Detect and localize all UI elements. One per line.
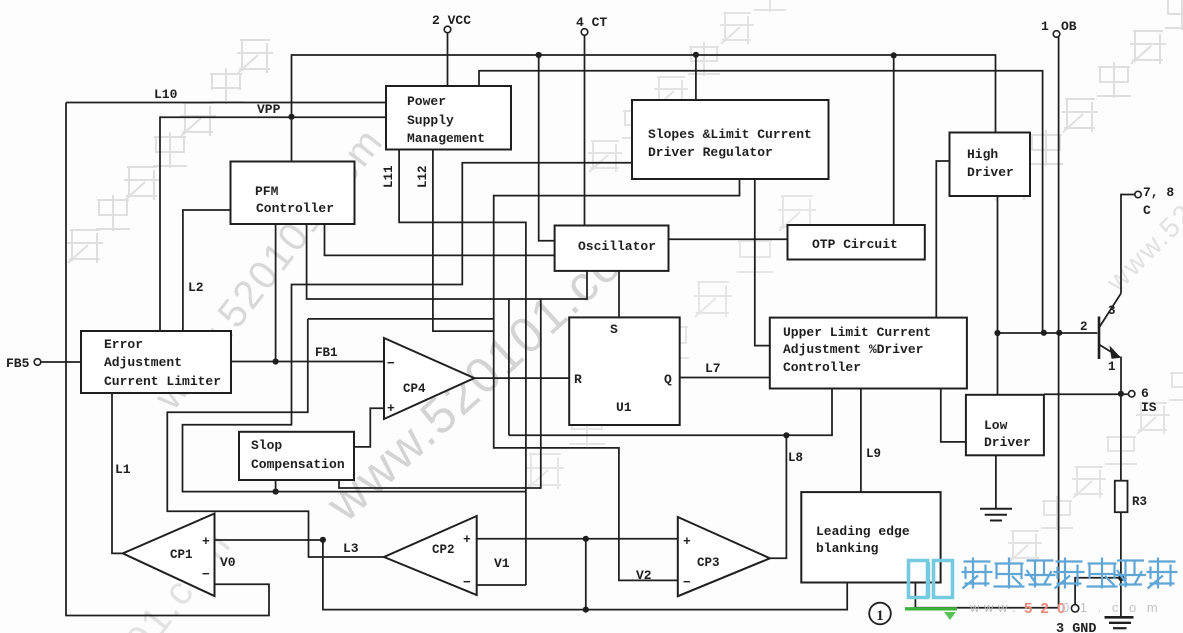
svg-text:+: +: [683, 534, 691, 549]
svg-text:L3: L3: [343, 541, 359, 556]
svg-text:Q: Q: [664, 372, 672, 387]
svg-text:Management: Management: [407, 131, 485, 146]
svg-text:Current Limiter: Current Limiter: [104, 374, 221, 389]
wire CP2 plus line to CP3 plus: [477, 538, 678, 540]
wire Slopes left pin long loop to slop-compensation line: [183, 163, 633, 492]
transistor Q1: [1098, 317, 1101, 360]
svg-text:V0: V0: [220, 555, 236, 570]
wire OB terminal down to base node: [1058, 37, 1060, 333]
svg-text:L2: L2: [188, 280, 204, 295]
block Oscillator: [555, 226, 669, 271]
svg-text:1: 1: [876, 608, 884, 624]
wire Upper Limit bottom to Low Driver left: [941, 389, 966, 442]
svg-text:L1: L1: [115, 462, 131, 477]
wire VPP horizontal to PSM left: [160, 116, 386, 118]
svg-text:+: +: [202, 534, 210, 549]
svg-text:CP1: CP1: [170, 548, 193, 562]
svg-text:blanking: blanking: [816, 541, 879, 556]
terminal 7,8 C: [1135, 185, 1175, 218]
ground bottom right: [1105, 616, 1134, 619]
svg-text:High: High: [967, 147, 998, 162]
wire slop box bottom pin: [275, 480, 277, 492]
colored watermark bottom right: [909, 558, 1178, 599]
wire Slopes bottom pin1 to V2 chain: [494, 179, 740, 580]
resistor R3: [1115, 481, 1128, 513]
svg-text:Controller: Controller: [256, 201, 334, 216]
svg-text:R3: R3: [1132, 495, 1147, 509]
wire V1 box bottom: [477, 584, 526, 586]
svg-text:L9: L9: [866, 447, 881, 461]
wire VPP vertical from bus to PFM top: [291, 54, 293, 162]
svg-text:V2: V2: [636, 568, 652, 583]
block Slopes & Limit Current Driver Regulator: [632, 100, 829, 179]
svg-text:L10: L10: [154, 87, 178, 102]
svg-text:Error: Error: [104, 337, 143, 352]
wire Slopes bottom pin2 to Upper Limit left: [755, 179, 770, 346]
svg-text:1: 1: [1041, 19, 1049, 34]
wire bottom rail from L3 node to blanking box: [323, 540, 847, 610]
block OTP Circuit: [788, 225, 925, 260]
wire CP4 plus from slop compensation: [354, 408, 384, 447]
svg-text:5 2 0: 5 2 0: [1024, 600, 1067, 617]
svg-text:−: −: [387, 356, 395, 371]
svg-text:IS: IS: [1141, 400, 1157, 415]
wire Oscillator S output to U1: [618, 271, 620, 318]
wire Low Driver bottom to ground: [995, 455, 997, 508]
green marker line: [905, 607, 957, 610]
wire L8 horizontal: [509, 389, 832, 436]
svg-text:4 CT: 4 CT: [576, 15, 607, 30]
junction base rail 1: [994, 330, 1000, 336]
svg-text:−: −: [202, 567, 210, 582]
svg-text:6: 6: [1141, 386, 1149, 401]
wire V rail vertical: [585, 539, 587, 610]
svg-text:L12: L12: [416, 165, 430, 188]
svg-text:Supply: Supply: [407, 113, 454, 128]
svg-text:Slopes &Limit Current: Slopes &Limit Current: [648, 127, 812, 142]
wire CP2 output loop to CP1 plus corner: [167, 319, 384, 557]
svg-text:S: S: [610, 322, 618, 337]
svg-text:2: 2: [1080, 320, 1088, 334]
wire CT terminal to Oscillator top: [584, 35, 586, 226]
junction V rail bottom: [583, 607, 589, 613]
wire CP3 output up to L8: [770, 435, 787, 558]
wire VCC top bus: [292, 54, 996, 56]
svg-text:PFM: PFM: [255, 184, 279, 199]
wire High Driver bottom to Low Driver top: [997, 196, 999, 395]
wire Oscillator bottom to PFM pin3 rail: [307, 224, 587, 299]
svg-text:1: 1: [1108, 360, 1116, 374]
junction V rail top: [583, 536, 589, 542]
svg-text:CP3: CP3: [697, 556, 720, 570]
wire L11 from PSM bottom to V1 right edge: [399, 150, 526, 586]
wire bus to Slopes box top: [695, 55, 697, 101]
svg-text:FB5: FB5: [6, 356, 30, 371]
svg-text:U1: U1: [616, 400, 632, 415]
terminal 6 IS: [1129, 386, 1157, 415]
svg-text:3: 3: [1108, 304, 1116, 318]
wire PSM top pin to right bus y70: [479, 71, 1043, 333]
block PFM Controller: [231, 162, 355, 225]
wire bus to OTP top: [893, 55, 895, 226]
wire label L11: [382, 165, 396, 188]
junction bus-slopes: [693, 52, 699, 58]
wire base rail to transistor: [998, 332, 1098, 334]
wire Oscillator left pin2 to PFM bottom pin: [325, 224, 555, 255]
junction base rail 3: [1056, 330, 1062, 336]
svg-text:−: −: [463, 575, 471, 590]
svg-text:L7: L7: [705, 361, 721, 376]
svg-text:OB: OB: [1061, 19, 1077, 34]
op-amp CP4: [384, 338, 474, 419]
wire L2 PFM left to Error top: [183, 210, 231, 332]
block High Driver: [950, 133, 1031, 197]
wire L9 Upper Limit to blanking box: [860, 389, 862, 493]
block Error Adjustment Current Limiter: [81, 331, 231, 393]
svg-text:Controller: Controller: [783, 360, 861, 375]
wire branch down to slop line: [339, 300, 541, 489]
svg-text:Upper Limit Current: Upper Limit Current: [783, 325, 931, 340]
wire pin3 GND to rail: [1075, 578, 1121, 605]
junction VPP: [288, 114, 294, 120]
wire OB net down to blanking box bottom: [915, 333, 1058, 608]
svg-text:Adjustment: Adjustment: [104, 355, 182, 370]
svg-text:V1: V1: [494, 556, 510, 571]
watermark layer: [67, 230, 103, 263]
junction IS node: [1118, 391, 1124, 397]
svg-text:CP2: CP2: [432, 543, 455, 557]
svg-text:7, 8: 7, 8: [1143, 185, 1174, 200]
terminal 3 GND: [1056, 605, 1097, 633]
junction FB1: [273, 358, 279, 364]
wire VCC terminal to Power Supply Management: [447, 33, 449, 87]
wire U1 Q to Upper Limit L7: [680, 377, 770, 379]
junction CP3 output on L8: [783, 432, 789, 438]
svg-text:+: +: [387, 401, 395, 416]
junction bus-OTP: [891, 52, 897, 58]
svg-text:−: −: [683, 575, 691, 590]
svg-text:Driver: Driver: [984, 435, 1031, 450]
svg-text:FB1: FB1: [315, 346, 338, 360]
svg-text:L11: L11: [382, 165, 396, 188]
wire label L12: [416, 165, 430, 188]
callout circled 1: [869, 603, 891, 625]
op-amp CP2: [384, 516, 477, 595]
wire CP4 output to U1 R: [474, 377, 569, 379]
svg-text:Adjustment %Driver: Adjustment %Driver: [783, 342, 923, 357]
junction base rail 2: [1041, 330, 1047, 336]
svg-text:L8: L8: [788, 451, 803, 465]
wire collector to 7-8 terminal: [1121, 195, 1135, 294]
block Leading edge blanking: [801, 492, 940, 582]
wire L1 Error bottom to CP1 output: [112, 393, 123, 553]
wire Oscillator right to OTP left: [669, 238, 788, 240]
wire bus to Oscillator left pin: [539, 55, 555, 241]
svg-text:Oscillator: Oscillator: [578, 239, 656, 254]
block Upper Limit Current Adjustment Driver Controller: [770, 318, 967, 389]
wire VPP down to Error box top: [159, 116, 161, 332]
wire PFM pin3 branch to CP1-CP2 loop: [308, 318, 494, 320]
wire CP1 plus line to L3 node: [215, 539, 323, 541]
svg-text:w w w .: w w w .: [969, 600, 1016, 615]
terminal 2 VCC: [432, 13, 471, 33]
junction slop compensation bottom: [273, 489, 279, 495]
terminal FB5: [6, 356, 41, 371]
wire IS node down to R3: [1120, 394, 1122, 481]
wire L10 from PSM left to far left: [66, 102, 386, 104]
svg-text:0 1 . c o m: 0 1 . c o m: [1062, 600, 1161, 615]
svg-text:OTP Circuit: OTP Circuit: [812, 237, 898, 252]
svg-text:Driver Regulator: Driver Regulator: [648, 145, 773, 160]
wire L12 from PSM bottom: [433, 150, 494, 332]
svg-text:Power: Power: [407, 94, 446, 109]
wire R3 bottom to ground: [1120, 512, 1122, 617]
wire bus right end to High Driver top: [995, 54, 997, 133]
op-amp CP3: [678, 517, 770, 596]
block Slop Compensation: [239, 432, 354, 480]
svg-text:Low: Low: [984, 418, 1008, 433]
wire High Driver left pin to Upper Limit top: [936, 161, 949, 318]
svg-text:C: C: [1143, 203, 1151, 218]
terminal 4 CT: [576, 15, 607, 35]
block U1 SR latch: [569, 317, 680, 425]
svg-text:VPP: VPP: [257, 102, 281, 117]
svg-text:+: +: [463, 532, 471, 547]
junction GND rail: [1118, 575, 1124, 581]
junction CP1 plus node: [320, 537, 326, 543]
ground below Low Driver: [980, 508, 1012, 510]
svg-text:Leading edge: Leading edge: [816, 524, 910, 539]
svg-text:2 VCC: 2 VCC: [432, 13, 471, 28]
op-amp CP1: [123, 514, 215, 597]
wire branch down to L8: [508, 299, 510, 435]
wire L10 loop left-bottom to CP1 inverting input: [66, 103, 269, 616]
svg-text:3 GND: 3 GND: [1056, 622, 1097, 633]
wire PFM pin1 down to FB1 node: [275, 224, 277, 362]
wire FB1 Error right to CP4 inverting: [231, 361, 384, 363]
block Low Driver: [966, 395, 1044, 456]
block Power Supply Management: [386, 86, 511, 150]
wire emitter down to IS node: [1120, 357, 1122, 395]
svg-text:CP4: CP4: [403, 382, 426, 396]
junction bus-oscillator: [536, 52, 542, 58]
svg-text:Slop: Slop: [251, 438, 282, 453]
wire Low Driver right to IS node: [1044, 393, 1129, 395]
wire FB5 to Error box: [41, 361, 81, 363]
svg-text:R: R: [574, 372, 582, 387]
svg-text:Compensation: Compensation: [251, 457, 345, 472]
svg-text:Driver: Driver: [967, 165, 1014, 180]
terminal 1 OB: [1041, 19, 1077, 37]
